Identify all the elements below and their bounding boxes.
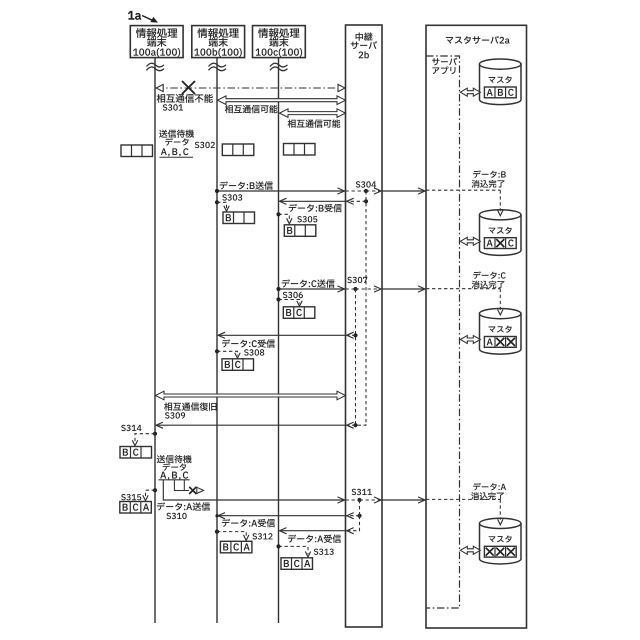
- dashed line in master to cylinder 4 (data A write): [426, 499, 503, 524]
- label data B send: [220, 181, 273, 189]
- hollow arrow app-db 2: [460, 237, 480, 245]
- arrow S312 data A recv relay to 100b: [215, 500, 361, 519]
- dashed line in master to cylinder 3 (data C write): [426, 289, 503, 315]
- cancel X and hollow arrow: [189, 487, 203, 494]
- master server box 2a: [426, 25, 527, 628]
- arrow relay to master (data C): [382, 286, 425, 292]
- label S302: [195, 142, 215, 148]
- hook S315 to queue box: [143, 488, 157, 501]
- hollow arrow app-db 3: [460, 336, 480, 344]
- label S307: [347, 277, 367, 283]
- underline A,B,C: [160, 156, 194, 158]
- hook S303 to queue box: [215, 200, 229, 211]
- queue box 100b after A recv: [220, 541, 252, 553]
- vertical hold line from S304 dot: [365, 191, 367, 424]
- label mutual communication restored: [164, 402, 216, 418]
- label data A recv 100b: [222, 519, 275, 527]
- hollow arrow app-db 1: [460, 88, 480, 96]
- label data C recv: [222, 339, 275, 347]
- lifeline break squiggle: [147, 63, 165, 70]
- master DB cylinder after B cleared: [479, 210, 521, 256]
- server app label: [432, 58, 457, 74]
- label S315: [121, 494, 141, 500]
- label send standby data A,B,C: [159, 130, 194, 157]
- arrow relay to master (data B): [382, 188, 425, 194]
- lifeline break squiggle: [270, 63, 288, 70]
- arrow relay to master (data A): [382, 497, 425, 503]
- queue box 100b initial: [222, 144, 254, 156]
- relay internal transfer S311 (data A): [346, 497, 382, 503]
- arrow S314 stored B,C relay to 100a: [156, 422, 366, 428]
- label data C write complete: [472, 271, 506, 288]
- label S314: [121, 425, 141, 431]
- arrow S310 data A send 100a to relay: [217, 497, 345, 503]
- master DB cylinder after C cleared: [479, 309, 521, 355]
- label S305: [297, 216, 317, 222]
- figure label 1a: [128, 11, 141, 20]
- queue box 100a initial: [121, 145, 153, 157]
- lifeline 100a: [154, 58, 156, 623]
- branch bracket under A,B,C: [159, 479, 190, 481]
- queue box 100c after A recv: [281, 558, 313, 570]
- hook S313 to queue box: [276, 544, 310, 557]
- hook S308 to queue box: [215, 349, 240, 358]
- arrow S313 data A recv relay to 100c: [280, 516, 360, 534]
- relay server box 2b: [346, 25, 383, 627]
- label data A send: [157, 502, 210, 510]
- label data B write complete: [472, 170, 506, 187]
- label S313: [314, 549, 334, 555]
- hollow arrow app-db 4: [460, 546, 480, 554]
- queue box 100c after C send: [283, 307, 315, 319]
- branch line A to send row: [163, 480, 217, 500]
- label S310: [167, 513, 187, 519]
- hook S306 to queue box: [276, 297, 302, 306]
- leader arrow from 1a: [142, 16, 154, 21]
- arrow mutual communication possible 100c-relay: [280, 109, 346, 118]
- label S303: [222, 194, 242, 200]
- label S311: [352, 489, 372, 495]
- hook S305 to queue box: [276, 212, 292, 224]
- arrow S305 data B recv relay to 100c: [280, 198, 369, 204]
- label data A recv 100c: [288, 535, 341, 543]
- hook S312 to queue box: [215, 530, 249, 541]
- label mutual communication possible 2: [288, 119, 341, 127]
- master DB cylinder after A cleared: [479, 518, 521, 564]
- lifeline break squiggle: [209, 63, 227, 70]
- queue box 100b after B send: [223, 212, 255, 224]
- arrow S301 mutual communication impossible (dash-dot): [156, 84, 346, 91]
- lifeline 100c: [278, 58, 280, 623]
- queue box 100c after B recv: [284, 225, 316, 237]
- label data C send: [282, 279, 335, 287]
- label data A write complete: [471, 483, 506, 500]
- vertical hold line from S307 dot: [355, 289, 357, 424]
- branch lines B,C to cancel mark: [174, 480, 189, 491]
- arrow mutual communication restored 100a-relay: [156, 391, 346, 400]
- queue box 100a after B,C recv: [120, 447, 152, 459]
- terminal box 100c: [253, 26, 306, 58]
- relay internal transfer S304 (data B): [346, 188, 382, 194]
- label S301: [157, 94, 213, 111]
- label send standby data A,B,C (100a): [157, 455, 192, 480]
- terminal box 100b: [192, 26, 245, 58]
- lifeline 100b: [216, 58, 218, 623]
- label S306: [283, 292, 303, 298]
- arrow mutual communication possible 100b-relay: [218, 96, 346, 105]
- label S308: [244, 349, 264, 355]
- hook S314 to queue box: [132, 432, 157, 446]
- arrow S306 data C send 100c to relay: [276, 286, 344, 292]
- queue box 100a after A send: [120, 502, 152, 514]
- queue box 100c initial: [284, 144, 316, 156]
- label S312: [253, 533, 273, 539]
- arrow S303 data B send 100b to relay: [215, 188, 345, 194]
- label data B recv: [289, 204, 342, 212]
- label S304: [356, 181, 376, 187]
- terminal box 100a: [130, 26, 183, 58]
- server app region (dash-dot): [426, 56, 460, 608]
- arrow S308 data C recv relay to 100b: [218, 332, 358, 338]
- relay internal transfer S307 (data C): [346, 286, 382, 292]
- queue box 100b after C recv: [222, 359, 254, 371]
- label mutual communication possible 1: [225, 105, 278, 113]
- dashed line in master to cylinder 2 (data B write): [426, 190, 503, 216]
- X mark on S301 line: [182, 81, 195, 94]
- master DB cylinder initial A B C: [479, 59, 521, 105]
